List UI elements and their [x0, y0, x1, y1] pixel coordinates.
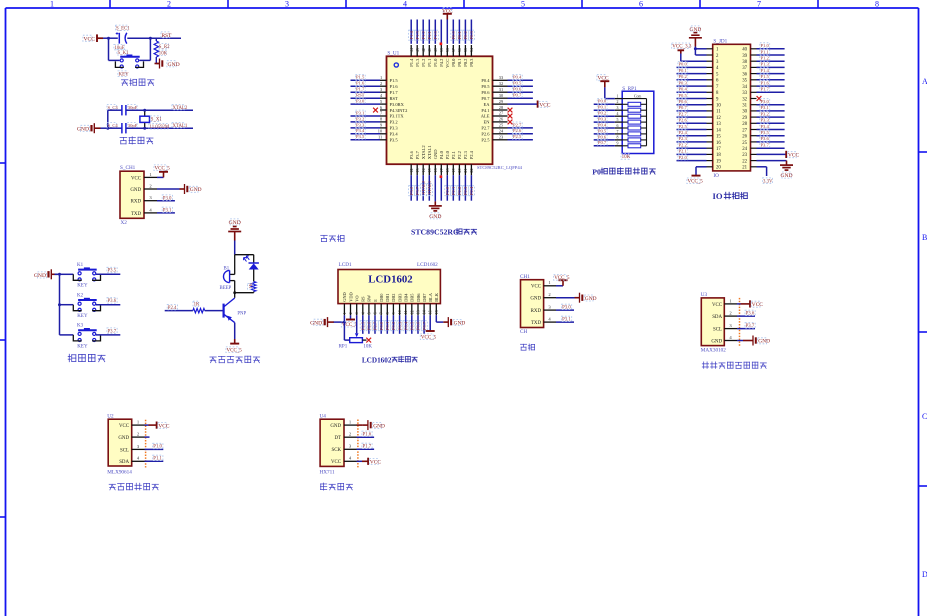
svg-text:P1.4: P1.4 — [409, 30, 414, 39]
pin 12 / pin 29 (S_JD1 row 12) — [707, 116, 757, 121]
wire net P0.1 (S_JD1 left) — [677, 68, 707, 74]
wire VO to potentiometer — [356, 315, 358, 333]
pin 9 P3.3 (U1 left) — [380, 123, 398, 131]
svg-text:XTAL2: XTAL2 — [421, 145, 426, 159]
pin 4 GND (MAX30102) — [711, 335, 737, 345]
power VCC_5 (LCD pin15 BLA) — [420, 315, 436, 340]
wire net P0.5 (RP1) — [594, 128, 615, 134]
pin 16 BLK (LCD1602) — [434, 292, 439, 315]
svg-text:38: 38 — [742, 60, 747, 65]
svg-text:VCC: VCC — [119, 424, 129, 429]
svg-text:P3.6: P3.6 — [761, 136, 770, 141]
svg-text:K2: K2 — [77, 294, 84, 299]
svg-text:BLA: BLA — [428, 292, 433, 302]
svg-text:GND: GND — [429, 214, 441, 220]
wire (U1 top col 10) — [464, 20, 466, 44]
orange marker line (MLX90614) — [145, 420, 147, 468]
net label P1.0 (U1 top) — [433, 30, 439, 40]
pin 8 P3.2 (U1 left) — [380, 117, 398, 125]
power VCC (MAX pin1) — [737, 300, 763, 308]
svg-text:GND: GND — [433, 149, 438, 159]
svg-text:GND: GND — [780, 173, 792, 179]
pin 2 GND (MLX90614) — [118, 432, 144, 442]
wire net P0.4 (RP1) — [594, 122, 615, 128]
wire net P1.3 (S_JD1 right) — [757, 61, 785, 67]
pin 1 P1.5 (U1 left) — [380, 75, 398, 83]
svg-text:26: 26 — [742, 135, 747, 140]
junction key bus top — [58, 273, 61, 276]
net label P2.2 (U1 bottom) — [457, 186, 463, 196]
wire (U1 top col 9) — [458, 20, 460, 44]
wire net P3.0 (U1 left) — [351, 98, 381, 104]
pin 11 / pin 30 (S_JD1 row 11) — [707, 110, 757, 115]
wire alarm bottom rail — [235, 292, 254, 294]
power VCC_5 (CH1 pin1) — [554, 275, 570, 286]
svg-text:P1.4: P1.4 — [761, 68, 770, 73]
svg-text:P3.7: P3.7 — [746, 324, 755, 329]
title IO拓展口 — [713, 191, 748, 201]
svg-text:U4: U4 — [320, 413, 327, 419]
svg-text:VDD: VDD — [348, 292, 353, 302]
svg-text:DB2: DB2 — [391, 294, 396, 302]
svg-text:P0.2: P0.2 — [679, 74, 688, 79]
wire net P1.0 (S_JD1 right) — [757, 43, 785, 49]
svg-text:P1.6: P1.6 — [363, 433, 372, 438]
svg-text:P0.4: P0.4 — [403, 321, 408, 330]
svg-text:P0.7: P0.7 — [422, 321, 427, 330]
wire (U1 top col 8) — [452, 20, 454, 44]
net label P2.4 (U1 bottom) — [469, 186, 475, 196]
resistor element 6 (RP1) — [622, 132, 646, 136]
wire net P3.0 (S_JD1 right) — [757, 99, 785, 105]
pin 7 / pin 34 (S_JD1 row 7) — [707, 85, 757, 90]
svg-text:P1.6: P1.6 — [761, 80, 770, 85]
svg-text:P0.0: P0.0 — [598, 99, 607, 104]
svg-text:11: 11 — [378, 135, 382, 140]
svg-text:HX711: HX711 — [320, 469, 335, 475]
pin 24 P2.6 (U1 right) — [481, 129, 507, 137]
svg-text:2: 2 — [167, 0, 171, 9]
net label P3.6 (U1 bottom) — [409, 186, 415, 196]
svg-text:27: 27 — [742, 128, 747, 133]
wire + power ground (S_CH1 pin2) — [157, 184, 202, 194]
wire + power ground (CH1 pin2) — [556, 293, 597, 303]
svg-text:P2.7: P2.7 — [373, 321, 378, 330]
op chip body U1 STC89C52RC — [387, 51, 523, 170]
key S_K1 (reset button) — [109, 38, 151, 77]
svg-text:P2.6: P2.6 — [367, 321, 372, 330]
wire net P2.7 (U1 right) — [508, 122, 533, 128]
wire net P0.2 (RP1) — [594, 110, 615, 116]
svg-text:XTAL2: XTAL2 — [421, 180, 426, 195]
module U4 HX711 body — [320, 413, 345, 475]
wire (U1 top col 4) — [428, 20, 430, 44]
pin 17 P4.0 (U1 bottom) — [439, 150, 444, 175]
resistor R1 1K (led) — [248, 282, 256, 293]
svg-text:1K: 1K — [248, 282, 253, 288]
svg-text:PNP: PNP — [237, 312, 246, 317]
svg-text:P2.4: P2.4 — [168, 306, 177, 311]
svg-text:22: 22 — [469, 168, 474, 172]
svg-text:P1.5: P1.5 — [356, 75, 365, 80]
svg-text:ALE: ALE — [481, 114, 490, 119]
wire net P1.5 (U1 left) — [351, 74, 381, 80]
svg-text:8: 8 — [875, 0, 879, 9]
pin 12 P3.6 (U1 bottom) — [409, 150, 414, 175]
connector CH1 body (serial) — [520, 274, 544, 335]
svg-text:9: 9 — [391, 312, 396, 314]
svg-text:P2.2: P2.2 — [679, 143, 688, 148]
svg-text:P1.2: P1.2 — [761, 56, 770, 61]
svg-text:P2.1: P2.1 — [451, 186, 456, 195]
pin 1 GND (HX711) — [330, 420, 356, 430]
wire net P2.4 (S_JD1 left) — [677, 130, 707, 136]
svg-text:P2.5: P2.5 — [361, 321, 366, 330]
svg-text:P3.4: P3.4 — [356, 128, 365, 133]
svg-text:P3.4: P3.4 — [761, 124, 770, 129]
pin 14 DB7 (LCD1602) — [422, 293, 427, 316]
svg-text:BLK: BLK — [434, 292, 439, 302]
svg-text:32: 32 — [499, 81, 503, 86]
svg-text:P0.3: P0.3 — [469, 30, 474, 39]
svg-text:P2.2: P2.2 — [457, 151, 462, 159]
svg-text:23: 23 — [742, 153, 747, 158]
svg-text:18: 18 — [445, 168, 450, 172]
svg-text:11: 11 — [403, 310, 408, 314]
wire net P0.1 (RP1) — [594, 104, 615, 110]
svg-text:39: 39 — [439, 48, 444, 52]
svg-text:DB4: DB4 — [404, 293, 409, 302]
svg-text:C: C — [922, 412, 927, 421]
pin 5 P3.0RX (U1 left) — [380, 99, 405, 107]
wire net P3.4 (S_JD1 right) — [757, 124, 785, 130]
pin 9 DB2 (LCD1602) — [391, 294, 396, 316]
wire + power ground (LCD pin16 BLK) — [436, 315, 465, 327]
svg-text:P2.5: P2.5 — [513, 134, 522, 139]
svg-text:20: 20 — [457, 168, 462, 172]
power VCC (RP1) — [597, 75, 609, 88]
svg-text:P0.3: P0.3 — [598, 117, 607, 122]
key K1 — [60, 263, 101, 289]
svg-text:GND: GND — [330, 424, 341, 429]
wire net P3.1 (U1 left) — [351, 110, 381, 116]
svg-text:GND: GND — [34, 273, 46, 279]
svg-text:U2: U2 — [107, 413, 114, 419]
svg-text:P1.1: P1.1 — [427, 30, 432, 39]
svg-text:P1.1: P1.1 — [153, 457, 162, 462]
wire net P0.7 (U1 right) — [508, 92, 533, 98]
svg-text:P0.2: P0.2 — [391, 321, 396, 330]
svg-text:SCL: SCL — [120, 448, 129, 453]
pin 31 P0.6 (U1 right) — [481, 87, 507, 95]
svg-text:S_JD1: S_JD1 — [713, 38, 727, 44]
svg-text:P1.2: P1.2 — [421, 59, 426, 67]
wire net P3.6 (S_JD1 right) — [757, 136, 785, 142]
svg-text:P0.7: P0.7 — [598, 140, 607, 145]
wire net P3.3 (U1 left) — [351, 122, 381, 128]
svg-text:LCD1: LCD1 — [339, 262, 352, 268]
wire alarm top rail — [235, 254, 254, 256]
svg-text:34: 34 — [742, 85, 747, 90]
wire net P3.7 (S_JD1 right) — [757, 142, 785, 148]
wire (U1 bottom col 7) — [446, 175, 448, 201]
pin 16 / pin 25 (S_JD1 row 16) — [707, 141, 757, 146]
wire (U1 bottom col 9) — [458, 175, 460, 201]
pin 1 (RP1) — [615, 94, 622, 98]
svg-text:7: 7 — [379, 312, 384, 314]
svg-text:11.0592M: 11.0592M — [150, 125, 170, 130]
power VCC (HX711 pin4) — [357, 458, 382, 466]
pin 5 RW (LCD1602) — [366, 294, 371, 315]
pin 4 SDA (MLX90614) — [119, 456, 144, 466]
orange marker line (MAX30102) — [739, 298, 741, 347]
svg-text:39: 39 — [742, 54, 747, 59]
svg-text:P1.0: P1.0 — [761, 43, 770, 48]
pin 2 DT (HX711) — [334, 432, 356, 442]
pin 18 / pin 23 (S_JD1 row 18) — [707, 153, 757, 158]
svg-text:2: 2 — [617, 100, 619, 104]
svg-text:14: 14 — [716, 128, 721, 133]
pin 3 SCL (MAX30102) — [713, 323, 737, 333]
svg-text:29: 29 — [742, 116, 747, 121]
svg-text:P4.1: P4.1 — [481, 108, 489, 113]
wire net P3.6 (K2) — [96, 298, 120, 305]
wire net P2.2 (S_JD1 left) — [677, 142, 707, 148]
svg-text:4: 4 — [403, 0, 407, 9]
svg-text:DB3: DB3 — [397, 293, 402, 302]
svg-text:36: 36 — [742, 72, 747, 77]
pin 37 P0.0 (U1 top) — [451, 45, 456, 67]
wire (U1 bottom col 8) — [452, 175, 454, 201]
pin 18 P2.0 (U1 bottom) — [445, 150, 450, 175]
pin 6 (RP1) — [615, 124, 622, 128]
svg-text:40: 40 — [433, 48, 438, 52]
wire (U1 top col 3) — [422, 20, 424, 44]
wire net P1.7 (U1 left) — [351, 86, 381, 92]
svg-text:13: 13 — [716, 122, 721, 127]
wire net P2.5 (U1 right) — [508, 134, 533, 140]
svg-text:P1.7: P1.7 — [761, 87, 770, 92]
power ground (crystal) — [77, 123, 101, 133]
svg-text:LCD1602: LCD1602 — [368, 274, 412, 286]
wire net P3.1 (S_JD1 right) — [757, 105, 785, 111]
svg-text:P1.5: P1.5 — [761, 74, 770, 79]
wire (U1 bottom col 2) — [416, 175, 418, 201]
svg-text:P1.0: P1.0 — [433, 30, 438, 39]
wire P3.7 (MAX pin3) — [737, 323, 755, 329]
net label P1.3 (U1 top) — [415, 30, 421, 40]
svg-text:3: 3 — [617, 106, 619, 110]
svg-text:SCL: SCL — [713, 328, 722, 333]
svg-text:P2.4: P2.4 — [469, 150, 474, 159]
pin 43 P1.3 (U1 top) — [415, 45, 420, 67]
svg-text:VCC: VCC — [158, 423, 169, 429]
svg-text:41: 41 — [427, 48, 432, 52]
crystal S_X1 11.0592M — [140, 110, 170, 130]
pin 4 TXD (S_CH1) — [131, 207, 157, 217]
pin 30 P0.7 (U1 right) — [481, 93, 507, 101]
net label P0.3 (U1 top) — [469, 30, 475, 40]
svg-text:P2.7: P2.7 — [481, 126, 490, 131]
svg-text:GND: GND — [130, 188, 141, 193]
wire net P2.1 (S_JD1 left) — [677, 148, 707, 154]
pin 2 P1.6 (U1 left) — [380, 81, 398, 89]
power VCC_3.3 (S_JD1 pin3) — [672, 43, 707, 61]
svg-text:BEEP: BEEP — [220, 286, 232, 291]
svg-text:DB0: DB0 — [379, 293, 384, 302]
svg-text:7: 7 — [617, 130, 619, 134]
svg-text:P3.0RX: P3.0RX — [390, 102, 405, 107]
wire + power ground (S_JD1 pin22) — [757, 161, 794, 180]
wire VCC to RP1 pin1 — [605, 87, 615, 98]
no-connect X pin26 — [508, 120, 513, 125]
svg-text:VCC: VCC — [752, 302, 763, 308]
wire (U1 bottom col 3) — [422, 175, 424, 201]
wire P1.1 (MLX pin4) — [145, 455, 164, 461]
pin 10 P3.4 (U1 left) — [378, 129, 399, 137]
pin 19 P2.1 (U1 bottom) — [451, 151, 456, 175]
junction jd1 gnd — [694, 47, 697, 50]
pin 9 (RP1) — [615, 142, 622, 146]
pin 4 / pin 37 (S_JD1 row 4) — [707, 66, 757, 71]
svg-text:P0.4: P0.4 — [679, 87, 688, 92]
capacitor S_C3 30pF — [107, 105, 193, 116]
wire net P0.2 (LCD pin 9) — [391, 315, 397, 334]
pin 4 RST (U1 left) — [380, 93, 398, 101]
svg-text:P2.0: P2.0 — [445, 186, 450, 195]
svg-text:U3: U3 — [701, 292, 708, 298]
wire net P2.7 (S_JD1 left) — [677, 111, 707, 117]
wire net P2.0 (S_JD1 left) — [677, 155, 707, 161]
svg-text:S_C4: S_C4 — [108, 123, 119, 128]
svg-text:33: 33 — [742, 91, 747, 96]
pin 3 (RP1) — [615, 106, 622, 110]
svg-text:P1.1: P1.1 — [427, 59, 432, 67]
wire (U1 top col 1) — [410, 20, 412, 44]
pin 15 BLA (LCD1602) — [428, 292, 433, 315]
svg-text:37: 37 — [742, 66, 747, 71]
svg-text:P4.2: P4.2 — [439, 59, 444, 67]
svg-text:RST: RST — [390, 96, 399, 101]
wire net P0.0 (RP1) — [594, 98, 615, 104]
svg-text:TXD: TXD — [131, 212, 142, 217]
svg-text:DT: DT — [334, 436, 341, 441]
pin 4 RS (LCD1602) — [360, 296, 365, 315]
svg-text:XTAL2: XTAL2 — [173, 106, 188, 111]
svg-text:21: 21 — [463, 168, 468, 172]
pin 3 VO (LCD1602) — [354, 295, 359, 315]
svg-text:XTAL1: XTAL1 — [427, 180, 432, 195]
svg-text:8: 8 — [385, 312, 390, 314]
svg-text:GND: GND — [77, 126, 89, 132]
svg-text:VCC_5: VCC_5 — [155, 167, 171, 172]
pin 3 P1.7 (U1 left) — [380, 87, 398, 95]
pin 13 DB6 (LCD1602) — [416, 293, 421, 316]
wire net P3.7 (K3) — [96, 328, 120, 335]
svg-text:10K: 10K — [622, 155, 631, 160]
svg-text:P1.5: P1.5 — [390, 78, 399, 83]
svg-text:32: 32 — [742, 97, 747, 102]
svg-text:3.3V: 3.3V — [763, 179, 773, 184]
svg-text:P0.5: P0.5 — [679, 93, 688, 98]
title 下载口 — [321, 235, 344, 242]
svg-text:P1.6: P1.6 — [356, 81, 365, 86]
net label P2.4 — [167, 305, 177, 311]
svg-text:GND: GND — [229, 220, 241, 226]
wire net P2.6 (S_JD1 left) — [677, 117, 707, 123]
svg-text:P0.3: P0.3 — [679, 80, 688, 85]
svg-text:15: 15 — [716, 135, 721, 140]
svg-text:VCC: VCC — [712, 303, 722, 308]
svg-text:P3.1TX: P3.1TX — [390, 114, 405, 119]
svg-text:21: 21 — [742, 166, 747, 171]
wire net P3.2 (S_JD1 right) — [757, 111, 785, 117]
wire net P0.3 (S_JD1 left) — [677, 80, 707, 86]
pin 8 DB1 (LCD1602) — [385, 294, 390, 316]
svg-text:P0.6: P0.6 — [481, 90, 490, 95]
pin 1 / pin 40 (S_JD1 row 1) — [707, 48, 757, 53]
svg-text:P0.7: P0.7 — [679, 105, 688, 110]
wire + power ground (MAX pin4) — [737, 336, 770, 346]
pin 35 P0.2 (U1 top) — [463, 45, 468, 67]
pin 3 SCK (HX711) — [331, 444, 356, 454]
svg-text:3: 3 — [354, 312, 359, 314]
svg-text:P2.4: P2.4 — [679, 130, 688, 135]
svg-text:P0.5: P0.5 — [513, 81, 522, 86]
net label P1.2 (U1 top) — [421, 30, 427, 40]
svg-text:30: 30 — [742, 110, 747, 115]
wire net 3.3V (S_JD1 pin21) — [757, 167, 773, 185]
RP1 internal bus — [622, 99, 646, 146]
svg-text:P0.3: P0.3 — [397, 321, 402, 330]
pin 5 (RP1) — [615, 118, 622, 122]
wire net P1.4 (S_JD1 right) — [757, 68, 785, 74]
svg-text:VCC_5: VCC_5 — [688, 180, 704, 185]
resistor network S_RP1 body — [621, 86, 654, 160]
title LCD1602显示模块 — [362, 356, 417, 364]
power VCC_5 (S_JD1 pin20) — [687, 167, 707, 185]
pin 2 GND (CH1) — [530, 292, 556, 302]
wire net P1.6 (S_JD1 right) — [757, 80, 785, 86]
resistor element 7 (RP1) — [622, 138, 646, 142]
svg-text:P0.1: P0.1 — [457, 59, 462, 67]
svg-text:P4.3INT2: P4.3INT2 — [390, 108, 408, 113]
junction LCD gnd — [343, 321, 346, 324]
svg-text:P0.5: P0.5 — [410, 321, 415, 330]
svg-text:Com: Com — [634, 95, 641, 99]
svg-text:16: 16 — [716, 141, 721, 146]
pin 27 ALE (U1 right) — [481, 111, 508, 119]
junction alarm bottom — [233, 291, 236, 294]
svg-text:P1.7: P1.7 — [356, 87, 365, 92]
svg-text:5: 5 — [366, 312, 371, 314]
capacitor S_EC1 10uF — [114, 25, 130, 51]
svg-text:16: 16 — [433, 168, 438, 172]
svg-text:P2.3: P2.3 — [679, 136, 688, 141]
wire net P2.6 (LCD pin 5) — [366, 315, 372, 334]
svg-text:17: 17 — [439, 168, 444, 172]
svg-text:P3.6: P3.6 — [746, 312, 755, 317]
net label P2.0 (U1 bottom) — [445, 186, 451, 196]
svg-text:VCC_5: VCC_5 — [421, 336, 437, 341]
pin 40 P1.0 (U1 top) — [433, 45, 438, 67]
svg-text:P0.1: P0.1 — [457, 30, 462, 39]
pin 1 VCC (MLX90614) — [119, 420, 145, 430]
pin 6 P4.3INT2 (U1 left) — [380, 105, 407, 113]
pin 22 P2.4 (U1 bottom) — [469, 150, 474, 175]
svg-text:P0.7: P0.7 — [513, 93, 522, 98]
junction reset-left — [107, 37, 110, 40]
